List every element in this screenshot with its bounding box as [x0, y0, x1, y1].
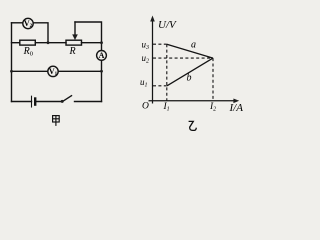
svg-text:A: A: [99, 51, 105, 60]
svg-text:R: R: [69, 46, 76, 57]
svg-text:U/V: U/V: [158, 19, 177, 31]
svg-text:a: a: [191, 40, 196, 51]
svg-text:b: b: [187, 73, 192, 84]
svg-text:I/A: I/A: [229, 102, 244, 114]
svg-text:O: O: [142, 102, 149, 112]
